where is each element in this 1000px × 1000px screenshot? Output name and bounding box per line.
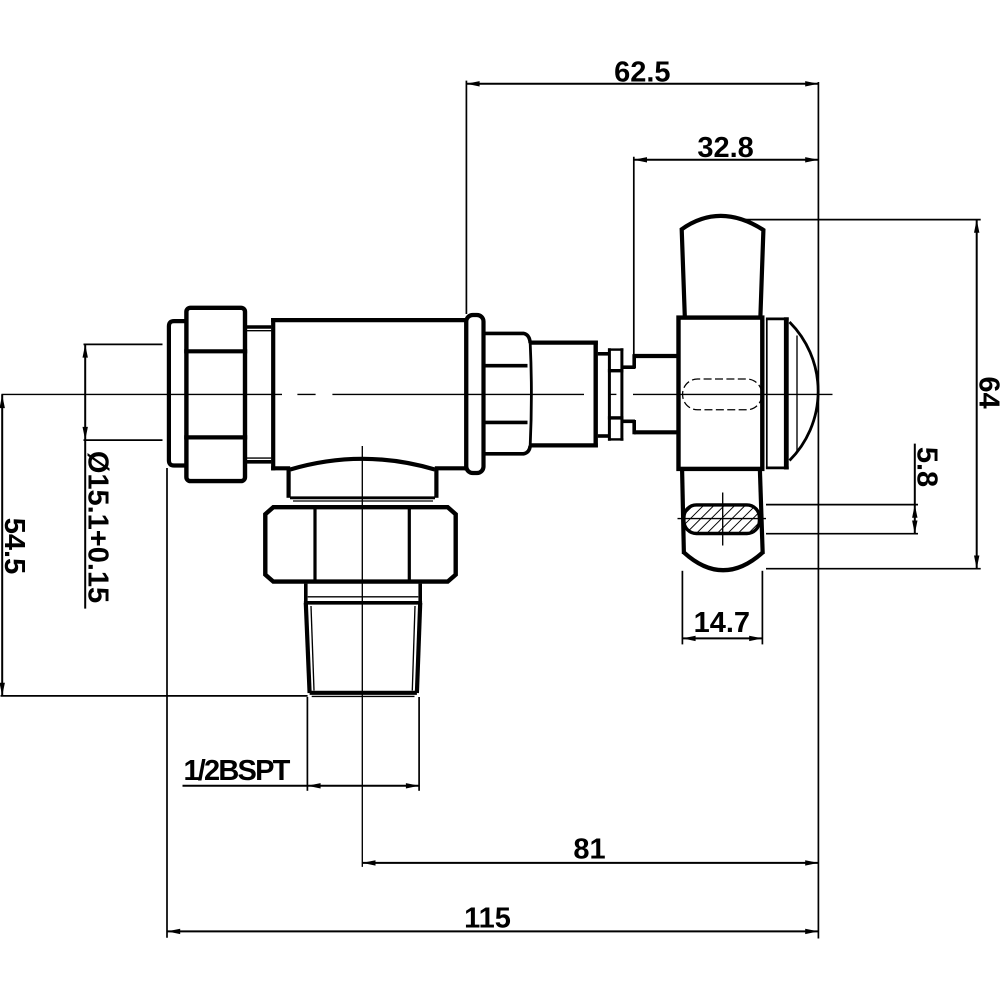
valve body bottom edge right segment — [435, 466, 469, 470]
outlet tube right edge — [760, 470, 763, 554]
saddle arc to lower branch — [290, 459, 435, 470]
collar left edge — [304, 584, 308, 603]
thread minor line left — [311, 606, 314, 691]
valve body bottom edge left segment — [271, 466, 290, 470]
thread minor line right — [412, 606, 415, 691]
svg-text:5.8: 5.8 — [911, 447, 943, 487]
neck top line — [598, 352, 610, 356]
stem end cap lower — [632, 420, 636, 434]
dimension Ø15.1 bottom extension — [84, 439, 163, 441]
long right extension line — [817, 82, 819, 939]
dimension 115 left extension — [166, 468, 168, 938]
valve body top edge — [271, 318, 468, 322]
gland cylinder top edge — [530, 341, 598, 345]
stem end cap upper — [632, 354, 636, 368]
svg-text:Ø15.1+0.15: Ø15.1+0.15 — [82, 451, 114, 603]
dimension 1/2BSPT left extension — [306, 697, 308, 791]
dimension 32.8 line — [634, 159, 819, 161]
bonnet band top edge — [766, 317, 789, 320]
gland cylinder right face — [594, 341, 598, 448]
gasket center mark horizontal — [678, 518, 767, 520]
gland hex top edge — [483, 333, 530, 343]
lower hex nut outline — [265, 507, 455, 581]
svg-text:14.7: 14.7 — [694, 607, 750, 639]
threaded stub right edge — [417, 603, 420, 693]
dimension 14.7 right extension — [761, 571, 763, 645]
stem small stub top — [623, 365, 635, 369]
dome base hidden line — [796, 336, 798, 452]
bonnet band bottom edge — [766, 466, 789, 469]
outlet tube left edge — [682, 470, 684, 554]
dimension Ø15.1 leader line — [84, 344, 86, 608]
collar thread line — [308, 596, 419, 598]
neck bottom line — [598, 434, 610, 438]
dimension 1/2BSPT line with leader — [183, 785, 420, 787]
dimension 64 bottom extension — [766, 568, 981, 570]
branch joint thin line — [293, 500, 433, 502]
dimension 64 top extension — [743, 219, 981, 221]
union nut chamfer line lower — [184, 435, 247, 439]
gasket center mark vertical — [722, 493, 724, 546]
gasket washer hatched — [684, 505, 760, 534]
olive joint lower thin line — [246, 457, 271, 459]
stem small stub bottom — [623, 419, 635, 423]
dimension 64 line — [976, 220, 978, 569]
lower branch left side — [287, 469, 291, 497]
gland hex facet line upper — [485, 364, 528, 368]
union nut chamfer line upper — [184, 349, 247, 353]
dimension 5.8 top extension — [766, 504, 918, 506]
svg-text:115: 115 — [464, 903, 511, 935]
svg-text:62.5: 62.5 — [614, 57, 670, 89]
lower branch right side — [434, 469, 438, 497]
stem top edge — [634, 354, 678, 358]
dimension 54.5 bottom extension — [1, 695, 308, 697]
bonnet band left edge — [766, 319, 768, 468]
branch joint medium line — [290, 496, 435, 499]
gland hex bottom edge — [483, 446, 530, 454]
dimension Ø15.1 top extension — [84, 343, 163, 345]
branch axis center line — [361, 446, 363, 867]
olive joint upper thick line — [245, 325, 271, 329]
olive joint upper thin line — [246, 330, 271, 332]
threaded stub bottom edge — [310, 691, 417, 695]
collar bottom edge — [304, 601, 422, 605]
main axis center line — [2, 393, 833, 395]
svg-text:32.8: 32.8 — [697, 132, 753, 164]
dimension 5.8 leader line — [914, 444, 916, 534]
collar right edge — [418, 584, 422, 603]
packing ring stack — [608, 348, 624, 441]
svg-text:81: 81 — [573, 834, 605, 866]
dimension 14.7 line — [682, 637, 762, 639]
bonnet band right edge — [784, 317, 789, 469]
dimension 115 line — [167, 930, 818, 932]
stem bottom edge — [634, 430, 678, 434]
lower hex inner facet line right — [408, 508, 411, 582]
handle screw slot dashed pill — [683, 379, 762, 410]
dimension 5.8 bottom extension — [766, 533, 918, 535]
dimension 62.5 extension line — [465, 81, 467, 314]
dimension 62.5 line — [466, 83, 818, 85]
svg-text:54.5: 54.5 — [0, 518, 30, 574]
gland cylinder bottom edge — [530, 443, 598, 447]
dome cap arc — [790, 322, 819, 461]
outlet flange washer — [466, 315, 483, 473]
outlet tube bottom cap — [684, 552, 763, 570]
dimension 54.5 line — [1, 394, 3, 696]
valve body right edge — [464, 318, 468, 470]
svg-text:1/2BSPT: 1/2BSPT — [183, 755, 290, 787]
olive joint lower thick line — [245, 460, 271, 464]
union nut hex — [186, 308, 245, 481]
dimension 32.8 extension line — [633, 157, 635, 366]
bonnet body — [679, 318, 763, 469]
dimension 1/2BSPT right extension — [418, 697, 420, 791]
dimension 14.7 left extension — [681, 571, 683, 645]
gland hex facet line lower — [485, 421, 528, 425]
lower hex inner facet line left — [313, 508, 316, 582]
svg-text:64: 64 — [973, 376, 1000, 408]
valve body left edge — [271, 318, 275, 470]
threaded stub left edge — [306, 603, 310, 693]
gland hex corner curve — [530, 343, 531, 445]
dimension 81 line — [362, 862, 818, 864]
stub tip chamfer line — [312, 695, 415, 697]
tail pipe (left inlet stub) — [169, 321, 186, 465]
handle — [682, 216, 764, 317]
